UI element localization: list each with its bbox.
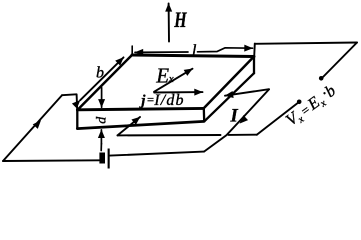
slab edge front top D-C [77,108,203,109]
wire rising to slab end (I wire) [204,89,269,151]
slab edge right rear vertical B-B' [253,57,255,74]
wire1 horizontal lower lead left part [118,134,221,136]
svg-text:j: j [139,93,146,109]
svg-text:I/db: I/db [153,92,185,109]
l dimension line left part with left arrowhead [135,51,188,53]
slab edge right top B-C [204,57,254,109]
wire bottom from corner to battery [3,159,99,162]
wire horizontal into slab end face with arrowhead [225,89,269,96]
svg-text:E: E [155,64,169,88]
label Vx = Ex b rotated [281,80,340,132]
svg-text:H: H [173,9,187,33]
current direction arrowhead I on right wire [237,115,248,126]
wire left loop slanted [3,95,62,161]
slab edge end bottom C'-B' [204,73,254,121]
battery negative plate (thick short) [99,153,105,164]
terminal dot upper [319,76,324,81]
wire lower lead rising to terminal [257,101,300,134]
wire left loop drop to slab left face [76,94,79,110]
l dimension extension tick at A [131,46,133,54]
l dimension line right part with right arrowhead [198,48,253,52]
svg-text:l: l [192,41,197,60]
wire upper lead up from B [253,44,256,57]
terminal dot lower [297,100,302,105]
d dimension lower arrow [100,130,102,144]
j vector arrow over label [154,91,202,93]
contact arrow to slab front face [118,117,141,135]
H field arrow [168,3,170,41]
svg-text:I: I [230,107,239,127]
d dimension lower arrow tail [100,144,102,151]
wire upper lead down to terminal [322,43,358,79]
slab edge front bottom D'-C' [77,121,204,128]
slab edge left top A-D [77,55,132,110]
battery positive plate (thin long) [108,149,110,169]
wire left loop top horizontal [62,93,76,96]
b dimension line along left edge with two arrowheads [80,57,123,100]
d dimension upper arrow [101,88,103,108]
svg-text:=: = [147,93,154,107]
slab edge rear top A-B [132,55,254,57]
svg-text:b: b [96,64,104,81]
wire upper lead top horizontal [255,43,357,44]
wire1 horizontal lower lead right part [229,134,257,136]
slab edge right front vertical C-C' [203,108,206,121]
wire battery right to bend [110,152,204,156]
slab edge left front vertical D-D' [76,110,78,129]
svg-text:x: x [168,73,174,85]
current direction arrowhead on left loop wire [33,118,44,129]
Ex field arrow on top face [154,69,193,92]
svg-text:d: d [95,116,110,124]
